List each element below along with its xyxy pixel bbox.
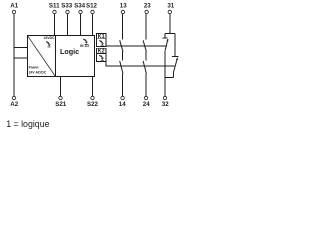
wire 13 down to contact [122, 14, 124, 39]
wire col2 to 24 [145, 74, 147, 97]
wire A2 from power box [14, 57, 28, 59]
terminal circle 32 [163, 96, 166, 99]
NC contact 2 seat bar [172, 56, 178, 58]
svg-text:24: 24 [143, 101, 150, 108]
relay K2 box [96, 48, 106, 61]
terminal circle S33 [66, 10, 69, 13]
svg-text:24V AC/DC: 24V AC/DC [29, 70, 47, 74]
NC rail down to 32 [164, 51, 166, 96]
K1 LED [99, 40, 104, 46]
svg-text:13: 13 [120, 2, 127, 9]
terminal circle 24 [144, 96, 147, 99]
wire S34 [80, 14, 82, 36]
svg-text:31: 31 [167, 2, 174, 9]
terminal circle 13 [121, 10, 124, 13]
terminal circle A1 [12, 10, 15, 13]
terminal circle S12 [91, 10, 94, 13]
NC contact 1 seat bar [162, 37, 167, 39]
svg-text:Logic: Logic [60, 47, 79, 56]
NC right vertical [174, 34, 176, 57]
power box diagonal [28, 36, 56, 77]
NC fixed stub left [164, 34, 166, 38]
contact K1 blade col 13-14 [120, 40, 123, 51]
wire 31 down to jog [169, 14, 171, 33]
terminal circle 31 [168, 10, 171, 13]
K1 mechanical linkage line [106, 45, 167, 47]
svg-text:S33: S33 [61, 2, 73, 9]
svg-text:23: 23 [144, 2, 151, 9]
NC blade 2 drop [172, 72, 174, 77]
svg-text:14: 14 [119, 101, 126, 108]
terminal circle 14 [121, 96, 124, 99]
power supply box [28, 36, 56, 77]
relay K1 box [96, 33, 106, 46]
contact K2 blade col 23-24 [143, 61, 146, 74]
svg-text:1 = logique: 1 = logique [6, 119, 49, 129]
terminal circle S34 [79, 10, 82, 13]
svg-text:S12: S12 [86, 2, 98, 9]
NC jog horizontal [165, 33, 175, 35]
svg-text:Power: Power [29, 66, 40, 70]
LED 24VDC [46, 41, 51, 47]
K2 mechanical linkage line [106, 62, 175, 66]
NC contact 2 blade [173, 58, 177, 73]
LED IN 1/2 [83, 39, 88, 45]
svg-text:IN 1/2: IN 1/2 [80, 44, 89, 48]
wire 23 down to contact [145, 14, 147, 39]
NC blade 1 arrowhead [166, 39, 168, 42]
wire mid col1 [122, 52, 124, 61]
wire S12 [92, 14, 94, 36]
NC contact 1 blade [165, 39, 168, 51]
svg-text:24VDC: 24VDC [44, 36, 55, 40]
terminal circle S22 [91, 96, 94, 99]
svg-text:32: 32 [162, 101, 169, 108]
svg-text:S22: S22 [87, 101, 99, 108]
K1 divider [96, 38, 106, 40]
contact K1 blade col 23-24 [143, 40, 146, 51]
wire S21 [60, 77, 62, 97]
svg-text:S11: S11 [49, 2, 60, 9]
terminal circle S11 [53, 10, 56, 13]
wire A1 down into power box [13, 14, 15, 96]
terminal circle 23 [145, 10, 148, 13]
NC bottom jog [165, 77, 173, 79]
wire mid col2 [145, 52, 147, 61]
svg-text:A1: A1 [10, 2, 18, 9]
svg-text:S34: S34 [74, 2, 86, 9]
K2 LED [99, 55, 104, 61]
svg-text:S21: S21 [55, 101, 67, 108]
contact K2 blade col 13-14 [120, 61, 123, 74]
wire S11 [54, 14, 56, 36]
wire S33 [67, 14, 69, 36]
wire col1 to 14 [122, 74, 124, 97]
svg-text:A2: A2 [10, 101, 18, 108]
terminal circle A2 [12, 96, 15, 99]
K2 divider [96, 53, 106, 55]
terminal circle S21 [59, 96, 62, 99]
logic box [56, 36, 95, 77]
wire S22 [92, 77, 94, 97]
NC blade 2 arrowhead [176, 58, 178, 61]
